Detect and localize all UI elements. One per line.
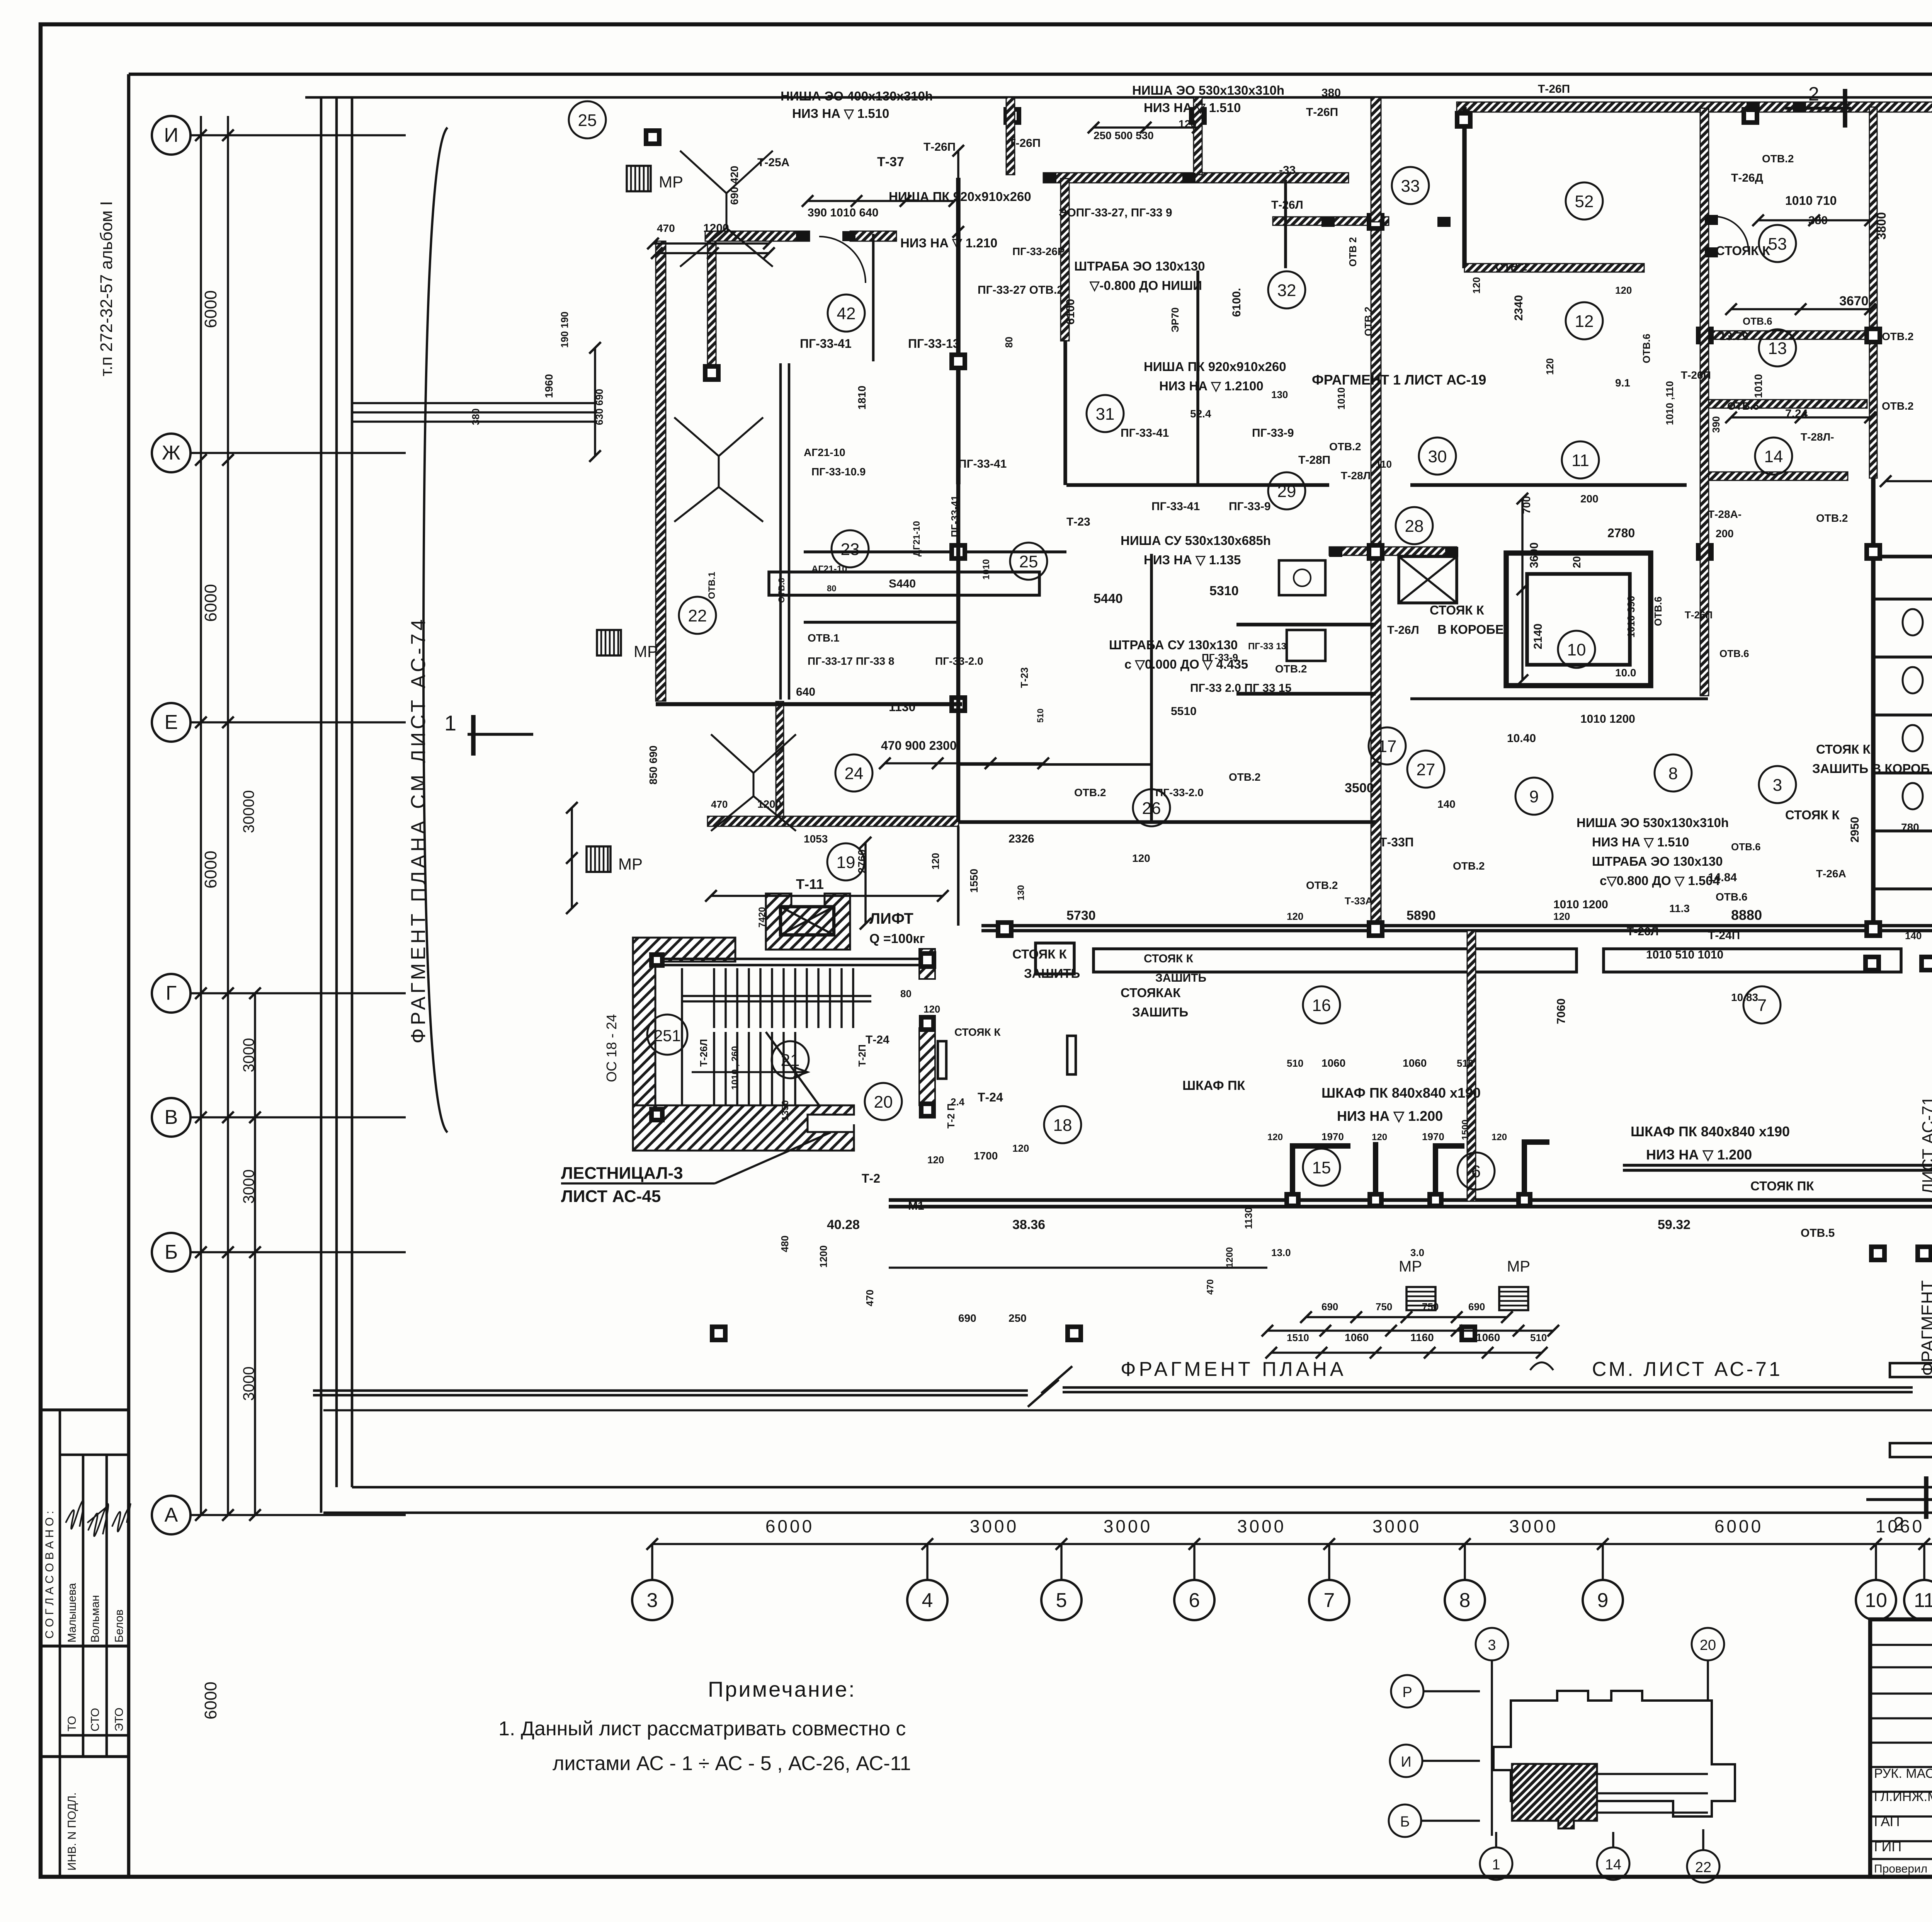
svg-text:СТОЯК К: СТОЯК К — [1816, 742, 1871, 756]
svg-text:250: 250 — [1009, 1312, 1027, 1324]
svg-text:А: А — [165, 1504, 178, 1526]
svg-text:850 690: 850 690 — [647, 746, 659, 785]
svg-text:ОТВ.2: ОТВ.2 — [1362, 306, 1374, 336]
stair bottom wall — [633, 1105, 854, 1151]
svg-text:Т-24: Т-24 — [978, 1090, 1003, 1104]
svg-text:ЗАШИТЬ: ЗАШИТЬ — [1024, 966, 1080, 981]
svg-text:7420: 7420 — [757, 907, 767, 928]
svg-text:ПГ-33-9: ПГ-33-9 — [1229, 500, 1271, 513]
svg-text:Т-26П: Т-26П — [1009, 137, 1041, 150]
svg-text:Малышева: Малышева — [66, 1583, 78, 1643]
svg-text:1510: 1510 — [1287, 1332, 1309, 1343]
main vertical spine x3560 — [1371, 222, 1381, 929]
north wall room 42 — [705, 231, 810, 241]
svg-text:ЭТО: ЭТО — [113, 1707, 126, 1731]
vertical wall x2480 — [956, 178, 961, 484]
svg-text:ФРАГМЕНТ: ФРАГМЕНТ — [1918, 1280, 1932, 1376]
svg-text:6000: 6000 — [1714, 1516, 1763, 1536]
svg-text:3600: 3600 — [1528, 542, 1541, 568]
svg-text:ОТВ.2: ОТВ.2 — [1306, 879, 1338, 891]
svg-text:8880: 8880 — [1731, 907, 1762, 923]
svg-text:Т-2: Т-2 — [862, 1171, 880, 1185]
svg-text:24: 24 — [845, 764, 864, 783]
svg-text:Т-23: Т-23 — [1019, 667, 1030, 688]
vertical wall x3790 — [1462, 107, 1467, 268]
svg-text:200: 200 — [1571, 550, 1583, 568]
svg-text:ШТРАБА ЭО 130х130: ШТРАБА ЭО 130х130 — [1592, 854, 1723, 868]
svg-text:ОТВ.6: ОТВ.6 — [1743, 315, 1772, 327]
svg-text:40.28: 40.28 — [827, 1217, 860, 1232]
svg-text:1160: 1160 — [1410, 1331, 1434, 1343]
svg-text:НИША СУ 530х130х685h: НИША СУ 530х130х685h — [1121, 533, 1271, 548]
svg-text:В КОРОБЕ: В КОРОБЕ — [1437, 622, 1504, 637]
svg-text:120: 120 — [1615, 284, 1632, 296]
svg-text:МР: МР — [618, 855, 643, 873]
svg-text:2: 2 — [1808, 83, 1819, 105]
svg-text:2780: 2780 — [1607, 526, 1635, 540]
svg-text:1010 , 260: 1010 , 260 — [730, 1046, 740, 1090]
svg-text:6000: 6000 — [201, 851, 220, 889]
svg-text:470 900 2300: 470 900 2300 — [881, 739, 957, 752]
svg-text:Т-2П: Т-2П — [856, 1044, 868, 1067]
svg-text:120: 120 — [1372, 1132, 1387, 1142]
svg-text:Белов: Белов — [113, 1609, 126, 1643]
plan boundary top line — [305, 96, 1932, 99]
bottom axes — [652, 1543, 1932, 1545]
svg-text:59.32: 59.32 — [1658, 1217, 1690, 1232]
plan boundary bottom lines — [323, 1512, 1932, 1514]
svg-text:1970: 1970 — [1321, 1131, 1344, 1142]
svg-text:ШТРАБА ЭО 130х130: ШТРАБА ЭО 130х130 — [1074, 259, 1205, 273]
key plan — [1391, 1675, 1423, 1707]
room11 shaft box — [1506, 553, 1651, 686]
WC cells right of x4850..5030 — [1873, 555, 1932, 558]
svg-text:120: 120 — [1132, 852, 1150, 864]
svg-text:1350: 1350 — [780, 1100, 791, 1121]
walls rooms 13/14 — [1705, 331, 1867, 339]
svg-text:СМ. ЛИСТ АС-71: СМ. ЛИСТ АС-71 — [1592, 1358, 1782, 1381]
svg-text:ПГ-33-41: ПГ-33-41 — [1121, 427, 1169, 439]
svg-text:120: 120 — [1287, 911, 1303, 922]
svg-text:Ж: Ж — [162, 442, 180, 464]
svg-text:ОТВ.6: ОТВ.6 — [1716, 891, 1747, 903]
west outer wall — [656, 241, 666, 701]
wall y694 — [1464, 264, 1644, 272]
svg-text:ПГ-33-10.9: ПГ-33-10.9 — [811, 466, 866, 478]
svg-text:9: 9 — [1597, 1589, 1609, 1612]
svg-text:1: 1 — [1492, 1857, 1500, 1873]
svg-text:3000: 3000 — [970, 1516, 1019, 1536]
svg-text:13.0: 13.0 — [1271, 1247, 1291, 1258]
svg-text:6000: 6000 — [201, 290, 220, 328]
svg-text:ПГ-33-41: ПГ-33-41 — [800, 337, 852, 351]
stair right wall lower — [919, 1028, 935, 1105]
door arcs — [819, 237, 866, 283]
vertical wall x4850 — [1869, 107, 1877, 478]
svg-text:8: 8 — [1668, 764, 1678, 783]
wall x2480 lower link — [957, 826, 960, 926]
cubicles rooms 15/6 — [1293, 1142, 1549, 1200]
svg-text:Примечание:: Примечание: — [708, 1677, 856, 1701]
svg-text:Б: Б — [165, 1241, 178, 1263]
svg-text:Вольман: Вольман — [89, 1595, 102, 1643]
svg-text:S440: S440 — [889, 577, 916, 590]
svg-text:10.83: 10.83 — [1731, 991, 1758, 1003]
svg-text:130: 130 — [1016, 885, 1026, 901]
svg-text:470: 470 — [1205, 1279, 1216, 1295]
svg-text:3000: 3000 — [240, 1038, 257, 1073]
svg-text:Т-28П: Т-28П — [1298, 454, 1330, 466]
svg-text:1550: 1550 — [968, 869, 980, 893]
section mark 1 left — [468, 733, 533, 736]
svg-text:ПГ-33-41: ПГ-33-41 — [949, 495, 961, 537]
svg-text:1. Данный лист рассматрива: 1. Данный лист рассматривать совместно с — [498, 1718, 906, 1740]
svg-text:1060: 1060 — [1321, 1057, 1345, 1069]
svg-text:1130: 1130 — [889, 700, 915, 714]
svg-text:11: 11 — [1571, 451, 1589, 470]
svg-text:130: 130 — [1271, 389, 1288, 400]
walls y1616 — [1236, 623, 1376, 626]
svg-text:ЛИФТ: ЛИФТ — [869, 910, 913, 927]
svg-text:11.3: 11.3 — [1669, 902, 1690, 914]
svg-text:7.24: 7.24 — [1785, 407, 1808, 420]
stair diagonal cut — [766, 1032, 819, 1105]
section mark 2 top — [1785, 107, 1851, 110]
svg-text:МР: МР — [1399, 1258, 1422, 1275]
svg-text:РУК. МАСТ.: РУК. МАСТ. — [1874, 1766, 1932, 1781]
svg-text:Т-26Л: Т-26Л — [698, 1039, 709, 1067]
svg-text:ПГ-33 13: ПГ-33 13 — [1248, 641, 1286, 652]
svg-text:25: 25 — [578, 111, 597, 130]
svg-text:470: 470 — [657, 222, 675, 234]
svg-text:3800: 3800 — [1874, 212, 1888, 240]
svg-text:НИША ЭО 530х130х310h: НИША ЭО 530х130х310h — [1577, 815, 1729, 830]
svg-text:ОТВ.6: ОТВ.6 — [1641, 334, 1652, 363]
svg-text:510: 510 — [1287, 1057, 1303, 1069]
svg-text:Т-26П: Т-26П — [1538, 83, 1570, 95]
svg-text:НИША ЭО 400х130х310h: НИША ЭО 400х130х310h — [781, 89, 933, 103]
svg-text:750: 750 — [1422, 1301, 1439, 1313]
svg-text:33: 33 — [1401, 177, 1420, 196]
svg-text:2760: 2760 — [856, 849, 868, 873]
svg-text:2950: 2950 — [1849, 817, 1861, 843]
svg-text:30: 30 — [1428, 447, 1447, 466]
svg-text:ЛИСТ АС-45: ЛИСТ АС-45 — [561, 1187, 661, 1206]
svg-text:ПГ-33-2.0: ПГ-33-2.0 — [935, 655, 983, 667]
svg-text:10.40: 10.40 — [1507, 732, 1536, 745]
svg-text:9.1: 9.1 — [1615, 377, 1630, 389]
svg-text:21: 21 — [781, 1051, 800, 1070]
svg-text:ПГ-33-41: ПГ-33-41 — [1151, 500, 1200, 513]
svg-text:ОТВ.6: ОТВ.6 — [1731, 841, 1761, 853]
north wall centre — [1457, 102, 1932, 112]
svg-text:80: 80 — [900, 988, 912, 999]
small wc fixtures room top — [1279, 560, 1325, 595]
svg-text:380: 380 — [1808, 214, 1828, 227]
fragment bracket left — [423, 128, 447, 1132]
svg-text:СТОЯК К: СТОЯК К — [1716, 243, 1770, 258]
svg-text:ШКАФ ПК 840х840 х190: ШКАФ ПК 840х840 х190 — [1321, 1085, 1481, 1101]
svg-text:НИЗ НА ▽ 1.510: НИЗ НА ▽ 1.510 — [1144, 100, 1241, 115]
svg-text:140: 140 — [1905, 930, 1922, 941]
vertical wall x2757 — [1061, 179, 1069, 341]
svg-text:ЭР70: ЭР70 — [1169, 307, 1181, 332]
top verticals x2615 x3100 — [1006, 97, 1015, 175]
columns — [644, 128, 662, 146]
svg-text:5730: 5730 — [1066, 908, 1096, 923]
svg-text:6: 6 — [1189, 1589, 1200, 1612]
west inner wall x1831 — [707, 241, 716, 369]
svg-text:52.4: 52.4 — [1190, 408, 1211, 420]
svg-text:ЗАШИТЬ: ЗАШИТЬ — [1155, 972, 1206, 984]
svg-text:ОТВ 2: ОТВ 2 — [1347, 237, 1359, 267]
walls y1428 — [1329, 547, 1457, 555]
svg-text:НИША ПК 920х910х260: НИША ПК 920х910х260 — [889, 189, 1031, 204]
svg-text:ОТВ.2: ОТВ.2 — [1882, 400, 1913, 412]
svg-text:25: 25 — [1019, 552, 1038, 571]
svg-text:510: 510 — [1457, 1057, 1473, 1069]
svg-text:ОТВ.2: ОТВ.2 — [1229, 771, 1260, 783]
svg-text:1010 1200: 1010 1200 — [1553, 898, 1608, 911]
svg-text:110: 110 — [1376, 458, 1392, 470]
svg-text:1: 1 — [444, 711, 456, 735]
svg-text:НИЗ НА ▽ 1.200: НИЗ НА ▽ 1.200 — [1337, 1108, 1443, 1124]
svg-text:ПГ-33-13: ПГ-33-13 — [908, 337, 960, 351]
svg-text:▽-0.800 ДО НИШИ: ▽-0.800 ДО НИШИ — [1089, 278, 1202, 293]
svg-text:120: 120 — [923, 1003, 940, 1015]
svg-text:СТО: СТО — [89, 1708, 102, 1731]
svg-text:1810: 1810 — [856, 386, 868, 410]
svg-text:15: 15 — [1312, 1158, 1331, 1177]
svg-text:АГ21-10: АГ21-10 — [804, 446, 845, 458]
svg-text:Т-26П: Т-26П — [923, 141, 956, 153]
lower horizontal line with break — [323, 1409, 1932, 1411]
svg-text:6100.: 6100. — [1230, 288, 1243, 317]
left dim chain — [254, 993, 256, 1515]
svg-text:1010: 1010 — [1335, 387, 1347, 410]
svg-text:ОТВ.8: ОТВ.8 — [777, 578, 786, 603]
svg-text:НИЗ НА ▽ 1.200: НИЗ НА ▽ 1.200 — [1646, 1147, 1752, 1163]
svg-text:СТОЯК К: СТОЯК К — [1430, 603, 1485, 617]
svg-text:200: 200 — [1716, 528, 1734, 540]
svg-text:6000: 6000 — [201, 584, 220, 622]
svg-text:ОТВ.2: ОТВ.2 — [1275, 663, 1307, 675]
svg-text:НИША ПК 920х910х260: НИША ПК 920х910х260 — [1144, 359, 1286, 374]
svg-text:ТО: ТО — [66, 1716, 78, 1731]
svg-text:630 690: 630 690 — [594, 389, 605, 425]
svg-text:ПГ-33 2.0 ПГ 33 15: ПГ-33 2.0 ПГ 33 15 — [1190, 682, 1291, 695]
svg-text:М1: М1 — [908, 1200, 924, 1212]
svg-text:14: 14 — [1605, 1857, 1621, 1873]
svg-text:390: 390 — [1710, 416, 1722, 433]
svg-text:380: 380 — [1321, 87, 1341, 99]
svg-text:1200: 1200 — [757, 798, 781, 810]
svg-text:НИЗ НА ▽ 1.2100: НИЗ НА ▽ 1.2100 — [1159, 379, 1264, 393]
svg-text:10.0: 10.0 — [1615, 667, 1636, 679]
svg-text:29: 29 — [1277, 482, 1296, 501]
svg-text:2: 2 — [1893, 1513, 1904, 1535]
fragment plan bottom double line — [313, 1389, 1028, 1392]
svg-text:5890: 5890 — [1406, 908, 1436, 923]
svg-text:470: 470 — [864, 1290, 876, 1306]
zigzag breaks — [680, 151, 773, 267]
svg-text:НИЗ НА ▽ 1.510: НИЗ НА ▽ 1.510 — [1592, 835, 1689, 849]
svg-text:480: 480 — [779, 1236, 791, 1252]
svg-text:380: 380 — [470, 409, 481, 425]
svg-text:3.0: 3.0 — [1410, 1247, 1424, 1258]
svg-text:Т-33А: Т-33А — [1345, 895, 1372, 907]
svg-text:1060: 1060 — [1345, 1331, 1369, 1343]
svg-text:ОС 18 - 24: ОС 18 - 24 — [604, 1014, 619, 1082]
svg-text:Т-28А-: Т-28А- — [1708, 508, 1742, 520]
benches small rects — [1890, 1363, 1932, 1377]
stojak box room19 — [1036, 943, 1074, 974]
MP mats left — [627, 166, 651, 191]
svg-text:1010 510 1010: 1010 510 1010 — [1646, 948, 1723, 961]
svg-text:ОТВ.5: ОТВ.5 — [1801, 1227, 1835, 1239]
svg-text:ГАП: ГАП — [1874, 1813, 1900, 1829]
section mark 2 bottom — [1866, 1498, 1932, 1501]
svg-text:80: 80 — [1003, 337, 1015, 348]
svg-text:ШКАФ ПК 840х840 х190: ШКАФ ПК 840х840 х190 — [1631, 1124, 1790, 1139]
svg-text:18: 18 — [1053, 1116, 1072, 1135]
svg-text:Т-28Л: Т-28Л — [1341, 470, 1371, 482]
svg-text:Т-33П: Т-33П — [1379, 835, 1414, 849]
stair up arrow — [692, 1067, 808, 1077]
svg-text:АГ21-10: АГ21-10 — [811, 564, 847, 574]
svg-text:120: 120 — [1544, 358, 1556, 375]
svg-text:1010: 1010 — [1752, 374, 1764, 398]
svg-text:20: 20 — [874, 1093, 893, 1112]
svg-text:6000: 6000 — [201, 1682, 220, 1719]
svg-text:2326: 2326 — [1009, 832, 1034, 845]
svg-text:ДГ21-10: ДГ21-10 — [912, 521, 922, 557]
svg-text:1700: 1700 — [974, 1150, 998, 1162]
svg-text:ОТВ.2: ОТВ.2 — [1453, 860, 1485, 872]
svg-text:НИЗ НА ▽ 1.210: НИЗ НА ▽ 1.210 — [900, 236, 997, 250]
svg-text:ОТВ.2: ОТВ.2 — [1762, 153, 1794, 165]
svg-text:ОТВ.2: ОТВ.2 — [1882, 330, 1913, 342]
svg-text:5: 5 — [1056, 1589, 1067, 1612]
svg-text:3670: 3670 — [1839, 294, 1869, 308]
svg-text:120: 120 — [927, 1154, 944, 1166]
svg-text:1200: 1200 — [703, 222, 729, 235]
inner frame left line — [127, 74, 131, 1877]
svg-text:Проверил: Проверил — [1874, 1862, 1927, 1875]
svg-text:120: 120 — [1179, 118, 1197, 130]
svg-text:1200: 1200 — [818, 1245, 829, 1268]
svg-text:ПГ-33-27 ОТВ.2: ПГ-33-27 ОТВ.2 — [978, 284, 1063, 296]
svg-text:250 500 530: 250 500 530 — [1094, 129, 1154, 141]
lift shaft T-11 — [766, 894, 850, 950]
stair right top block — [919, 949, 935, 979]
svg-text:470: 470 — [711, 798, 728, 810]
shkaf narrow corridor — [1067, 1036, 1076, 1074]
dim line 8170 — [1886, 480, 1932, 482]
stair mid landing lines — [682, 995, 871, 997]
svg-text:22: 22 — [688, 606, 707, 625]
svg-text:Т-24: Т-24 — [866, 1033, 889, 1046]
svg-text:1130: 1130 — [1243, 1207, 1254, 1229]
svg-text:120: 120 — [1553, 911, 1570, 922]
svg-text:СТОЯК К: СТОЯК К — [1012, 947, 1067, 961]
svg-text:ПГ-33-2.0: ПГ-33-2.0 — [1155, 787, 1204, 798]
svg-text:ЗАШИТЬ В КОРОБ: ЗАШИТЬ В КОРОБ — [1812, 761, 1930, 776]
bottom plan dim line — [1267, 1330, 1553, 1332]
svg-text:ШТРАБА СУ 130х130: ШТРАБА СУ 130х130 — [1109, 638, 1238, 652]
svg-text:Т-26Л: Т-26Л — [1627, 925, 1659, 938]
svg-text:1010 710: 1010 710 — [1785, 194, 1837, 208]
svg-text:1500: 1500 — [1460, 1120, 1471, 1140]
svg-text:120: 120 — [1471, 277, 1482, 294]
svg-text:С О Г Л А С О В А Н О :: С О Г Л А С О В А Н О : — [43, 1511, 56, 1639]
svg-text:13.79: 13.79 — [1719, 330, 1748, 343]
svg-text:ПГ-33-9: ПГ-33-9 — [1252, 427, 1294, 439]
svg-text:690: 690 — [958, 1312, 976, 1324]
stair enclosure left wall — [633, 938, 735, 1132]
svg-text:12: 12 — [1575, 312, 1594, 331]
svg-text:38.36: 38.36 — [1012, 1217, 1045, 1232]
cross box room30 — [1399, 557, 1457, 603]
svg-text:3000: 3000 — [1372, 1516, 1421, 1536]
shelves rectangles in corridor — [1094, 949, 1577, 972]
strip lines west — [352, 402, 597, 404]
plan boundary verticals left — [320, 97, 323, 1513]
svg-text:3: 3 — [647, 1589, 658, 1612]
svg-text:1010: 1010 — [981, 559, 992, 580]
svg-text:Т-28Л-: Т-28Л- — [1801, 431, 1834, 443]
north wall rooms 31-33 — [1043, 173, 1349, 183]
svg-text:2340: 2340 — [1512, 295, 1525, 321]
svg-text:ЗАШИТЬ: ЗАШИТЬ — [1132, 1005, 1188, 1019]
svg-text:780: 780 — [1901, 821, 1919, 833]
stair treads upper flight — [713, 968, 715, 1028]
svg-text:120: 120 — [1012, 1142, 1029, 1154]
svg-text:НИЗ НА ▽ 1.510: НИЗ НА ▽ 1.510 — [792, 106, 889, 121]
svg-text:17: 17 — [1378, 737, 1397, 756]
stamp signatures — [66, 1501, 83, 1529]
svg-text:ЭОПГ-33-27, ПГ-33 9: ЭОПГ-33-27, ПГ-33 9 — [1059, 206, 1172, 219]
svg-text:4: 4 — [922, 1589, 933, 1612]
svg-text:32: 32 — [1277, 281, 1296, 300]
svg-text:2140: 2140 — [1532, 623, 1544, 649]
svg-text:1200: 1200 — [1225, 1247, 1235, 1268]
svg-text:31: 31 — [1096, 405, 1115, 424]
svg-text:ПГ-33-41: ПГ-33-41 — [958, 458, 1007, 470]
left axes — [152, 116, 190, 155]
vertical wall x2480 extension — [956, 484, 961, 822]
svg-text:Т-37: Т-37 — [877, 155, 904, 169]
lower west block wall y2127 right part — [959, 820, 1376, 824]
svg-text:Г: Г — [166, 982, 177, 1004]
svg-text:1010 ,110: 1010 ,110 — [1664, 381, 1675, 425]
svg-text:ФРАГМЕНТ ПЛАНА: ФРАГМЕНТ ПЛАНА — [1121, 1358, 1347, 1381]
svg-text:Т-11: Т-11 — [796, 876, 824, 892]
svg-text:6100: 6100 — [1064, 299, 1077, 325]
svg-text:14.84: 14.84 — [1708, 871, 1737, 884]
svg-text:Т-26П: Т-26П — [1306, 106, 1338, 119]
svg-text:3000: 3000 — [240, 1170, 257, 1204]
svg-text:СТОЯК К: СТОЯК К — [1144, 952, 1194, 965]
svg-text:19: 19 — [837, 853, 855, 872]
dim row below MP mats — [1306, 1316, 1507, 1318]
svg-text:9: 9 — [1529, 787, 1539, 806]
walls y1795..1812 — [1236, 692, 1376, 696]
svg-text:1960: 1960 — [543, 374, 555, 398]
key plan hatched block — [1512, 1764, 1597, 1828]
svg-text:120: 120 — [930, 853, 941, 870]
svg-text:И: И — [1401, 1754, 1411, 1770]
